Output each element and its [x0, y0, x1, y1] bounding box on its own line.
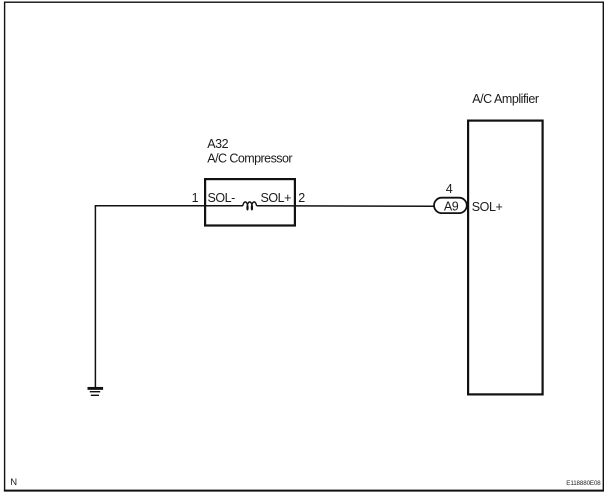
svg-text:2: 2 [298, 191, 305, 205]
svg-text:SOL+: SOL+ [261, 191, 292, 205]
svg-text:4: 4 [446, 182, 453, 196]
wire: left horizontal from ground corner to coil [95, 205, 243, 207]
wire: from coil to A9 connector [257, 205, 435, 207]
svg-text:N: N [10, 477, 17, 488]
ground [88, 388, 104, 395]
A/C compressor box A32 [205, 179, 295, 225]
svg-text:A32: A32 [207, 137, 228, 151]
svg-text:SOL-: SOL- [208, 191, 236, 205]
A/C amplifier box [468, 121, 542, 395]
svg-text:1: 1 [192, 191, 199, 205]
svg-text:E118880E08: E118880E08 [566, 480, 601, 487]
connector A9 oval [434, 198, 467, 213]
wire: vertical drop to ground [94, 206, 96, 388]
svg-text:A/C Amplifier: A/C Amplifier [472, 92, 539, 106]
svg-text:A9: A9 [444, 200, 459, 214]
solenoid coil of A/C compressor [243, 202, 257, 210]
svg-text:A/C Compressor: A/C Compressor [207, 152, 292, 166]
svg-text:SOL+: SOL+ [472, 200, 503, 214]
